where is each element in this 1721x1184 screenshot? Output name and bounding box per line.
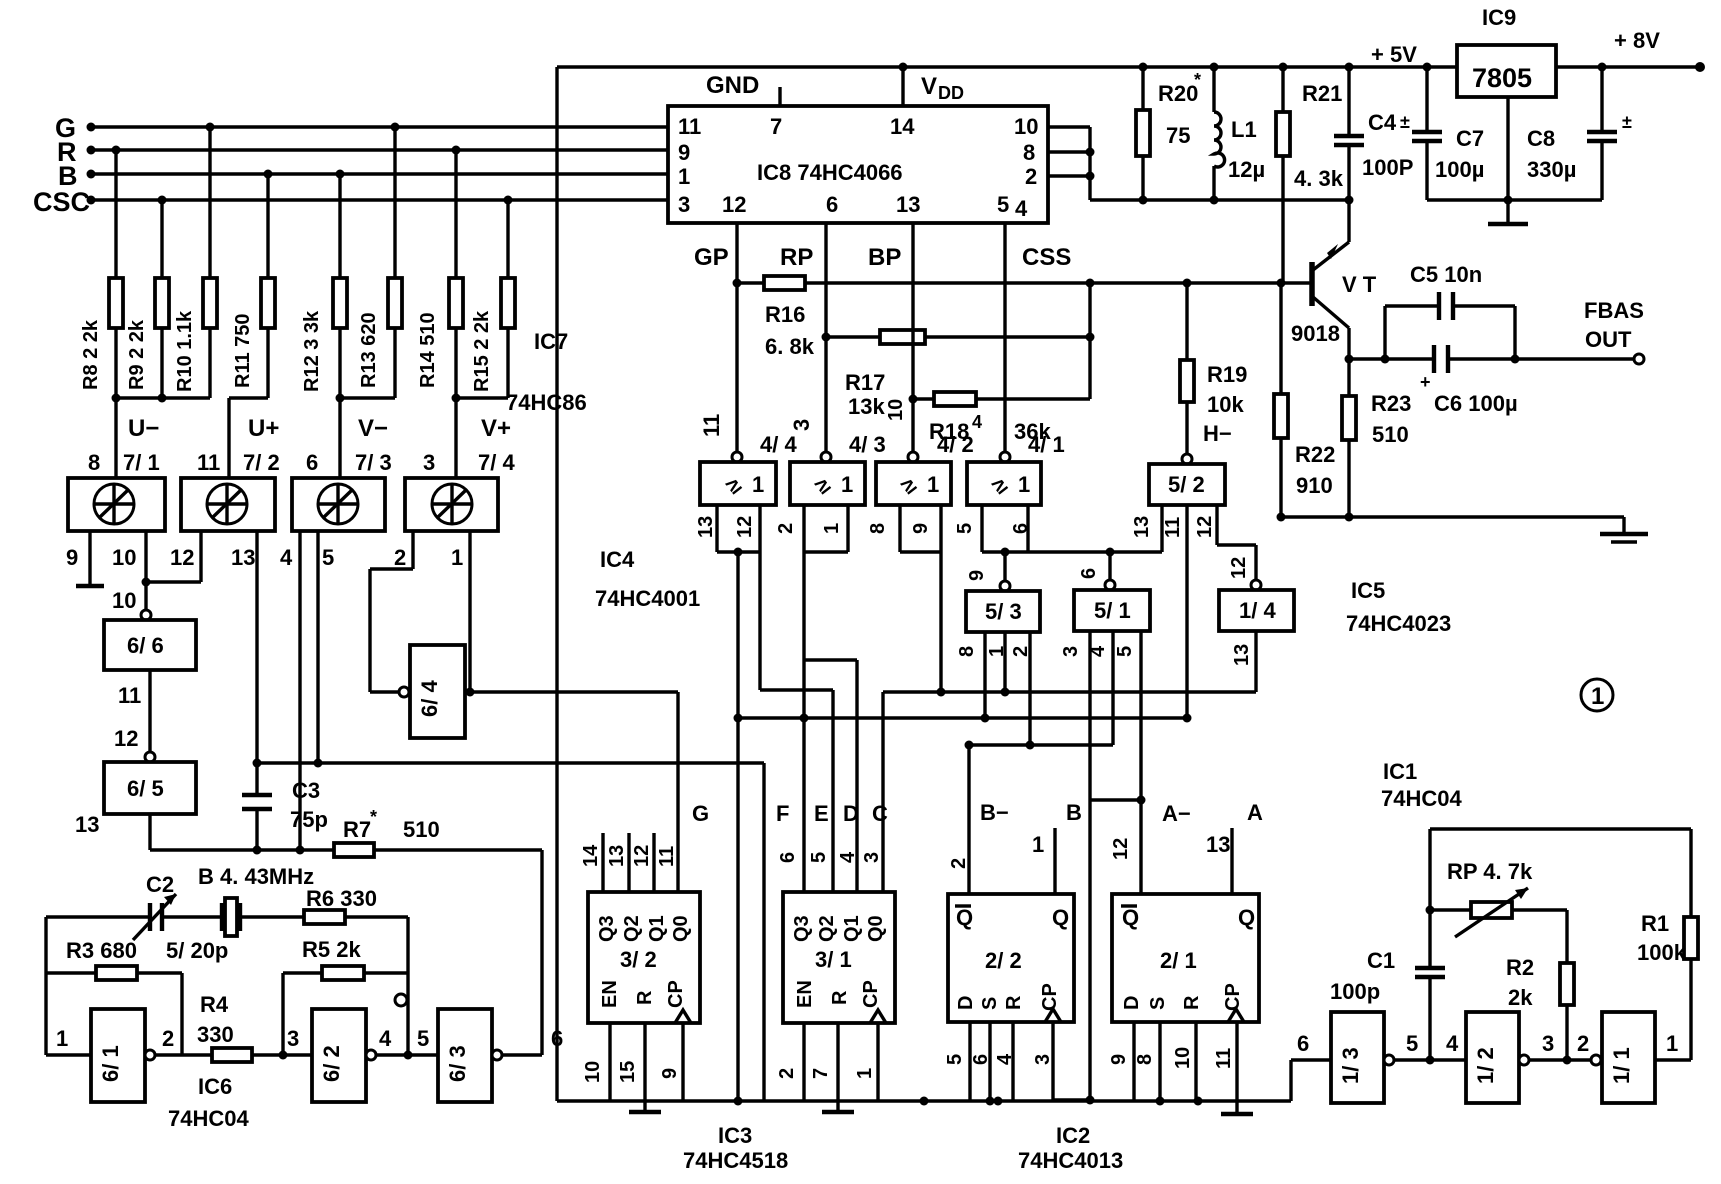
svg-text:3: 3 — [861, 852, 883, 863]
svg-text:R: R — [1003, 995, 1025, 1010]
svg-text:R6 330: R6 330 — [306, 886, 377, 911]
svg-text:5: 5 — [808, 852, 830, 863]
circled 1 mark — [1581, 679, 1613, 711]
svg-text:3: 3 — [287, 1026, 299, 1051]
xor gate 4/4 — [699, 414, 797, 505]
svg-text:330µ: 330µ — [1527, 157, 1576, 182]
IC5 label — [1346, 578, 1451, 636]
svg-text:IC1: IC1 — [1383, 759, 1417, 784]
node V- sum — [336, 394, 396, 479]
wire 6/2 out — [376, 994, 438, 1060]
node U+ sum — [229, 398, 279, 478]
svg-text:13: 13 — [1231, 644, 1253, 666]
nor gate 5/3 — [966, 581, 1040, 632]
svg-text:2/ 2: 2/ 2 — [985, 948, 1022, 973]
svg-text:1: 1 — [678, 164, 690, 189]
svg-text:Q2: Q2 — [816, 915, 838, 942]
wire CSS vertical — [1003, 223, 1006, 452]
inverter 6/4 (vertical) — [399, 645, 465, 738]
svg-text:R: R — [1181, 995, 1203, 1010]
svg-text:+ 5V: + 5V — [1371, 42, 1417, 67]
resistor R22 910 — [1274, 279, 1335, 518]
svg-text:1: 1 — [1591, 683, 1604, 710]
svg-text:R8 2 2k: R8 2 2k — [80, 319, 102, 390]
svg-text:1/ 3: 1/ 3 — [1338, 1047, 1363, 1084]
wire emitter rail y517 — [1277, 513, 1625, 522]
svg-text:9: 9 — [966, 570, 988, 581]
svg-text:R15 2 2k: R15 2 2k — [471, 310, 493, 392]
svg-text:4/ 3: 4/ 3 — [849, 432, 886, 457]
resistor R14 510 — [417, 150, 463, 398]
svg-text:4: 4 — [1015, 196, 1028, 221]
svg-text:1/ 4: 1/ 4 — [1239, 598, 1276, 623]
svg-text:74HC4023: 74HC4023 — [1346, 611, 1451, 636]
node V+ sum — [452, 394, 512, 479]
svg-text:1: 1 — [986, 646, 1008, 657]
resistor R11 750 — [232, 174, 275, 398]
inverter 6/5 — [104, 752, 196, 814]
svg-text:IC8 74HC4066: IC8 74HC4066 — [757, 160, 903, 185]
svg-text:C6 100µ: C6 100µ — [1434, 391, 1518, 416]
inverter 6/3 — [417, 1009, 563, 1102]
IC7 label — [506, 329, 587, 415]
svg-text:6/ 3: 6/ 3 — [445, 1045, 470, 1082]
nor gate 5/1 — [1074, 568, 1150, 631]
resistor R17 13k — [822, 330, 1095, 419]
svg-text:2: 2 — [1025, 164, 1037, 189]
wire 4/3 out jog to net D — [804, 660, 857, 892]
resistor R16 6.8k — [733, 276, 1310, 359]
capacitor C3 75p — [242, 778, 328, 850]
wire EN2 return via x764 — [762, 763, 765, 1101]
svg-text:EN: EN — [599, 980, 621, 1008]
IC8 74HC4066 — [668, 106, 1048, 223]
wire B — [91, 172, 668, 175]
svg-text:3: 3 — [423, 450, 435, 475]
pin 12 wire — [170, 531, 201, 582]
svg-text:3: 3 — [678, 192, 690, 217]
svg-text:13k: 13k — [848, 394, 885, 419]
svg-text:1/ 2: 1/ 2 — [1473, 1047, 1498, 1084]
svg-text:74HC86: 74HC86 — [506, 390, 587, 415]
inductor L1 12u — [1210, 63, 1266, 201]
wire 1/3 out — [1394, 1031, 1466, 1065]
resistor R3 680 — [46, 938, 228, 1055]
svg-text:6/ 2: 6/ 2 — [319, 1045, 344, 1082]
svg-text:75: 75 — [1166, 123, 1190, 148]
svg-text:R7: R7 — [343, 817, 371, 842]
pin 5 wire V- — [318, 531, 334, 763]
flip-flop IC2 2/1 — [1112, 894, 1259, 1022]
FBAS OUT terminal — [1515, 298, 1644, 364]
adder 7/2 — [181, 450, 280, 531]
svg-text:C8: C8 — [1527, 126, 1555, 151]
svg-text:R17: R17 — [845, 370, 885, 395]
svg-text:8: 8 — [956, 646, 978, 657]
svg-text:R10 1.1k: R10 1.1k — [174, 310, 196, 392]
resistor R20 75 — [1136, 63, 1201, 201]
crystal B 4.43MHz — [198, 864, 314, 936]
svg-text:10: 10 — [1172, 1047, 1194, 1069]
svg-text:11: 11 — [1162, 517, 1184, 538]
node B input — [58, 161, 96, 191]
svg-text:EN: EN — [794, 980, 816, 1008]
inverter 6/1 — [46, 1009, 174, 1102]
svg-text:R19: R19 — [1207, 362, 1247, 387]
svg-text:E: E — [814, 801, 829, 826]
svg-text:GP: GP — [694, 244, 729, 271]
svg-text:6. 8k: 6. 8k — [765, 334, 815, 359]
svg-text:6/ 1: 6/ 1 — [98, 1045, 123, 1082]
wire 1/1 out — [1655, 1031, 1691, 1060]
svg-text:R20: R20 — [1158, 81, 1198, 106]
svg-text:10: 10 — [1014, 114, 1038, 139]
svg-text:74HC4013: 74HC4013 — [1018, 1148, 1123, 1173]
svg-text:8: 8 — [1023, 140, 1035, 165]
svg-text:DD: DD — [938, 83, 964, 103]
3/2 spare Q stubs pins 14,13,12 — [580, 833, 678, 892]
2/2 top pins 2,1 — [948, 828, 1055, 894]
svg-text:9: 9 — [678, 140, 690, 165]
resistor R13 620 — [358, 127, 402, 398]
svg-text:4/ 2: 4/ 2 — [937, 432, 974, 457]
IC8 right output pins joined — [1048, 127, 1095, 200]
svg-text:6: 6 — [306, 450, 318, 475]
svg-text:9: 9 — [659, 1068, 681, 1079]
svg-text:5: 5 — [997, 192, 1009, 217]
svg-text:R: R — [634, 990, 656, 1005]
svg-text:C5 10n: C5 10n — [1410, 262, 1482, 287]
resistor R10 1.1k — [174, 127, 217, 398]
svg-text:6/ 5: 6/ 5 — [127, 776, 164, 801]
svg-text:1: 1 — [56, 1026, 68, 1051]
svg-text:3/ 2: 3/ 2 — [620, 947, 657, 972]
svg-text:2/ 1: 2/ 1 — [1160, 948, 1197, 973]
svg-text:510: 510 — [403, 817, 440, 842]
2/1 top pins 12,13 — [1110, 828, 1232, 894]
capacitor C5 10n bypass — [1349, 262, 1515, 364]
svg-text:13: 13 — [1206, 832, 1230, 857]
svg-text:7/ 3: 7/ 3 — [355, 450, 392, 475]
wire 6/4 output to counter Q0 feedback — [465, 688, 678, 893]
svg-text:3/ 1: 3/ 1 — [815, 947, 852, 972]
svg-text:8: 8 — [1134, 1054, 1156, 1065]
svg-text:12: 12 — [170, 545, 194, 570]
svg-text:CP: CP — [665, 980, 687, 1008]
GND pin 7 stub — [706, 72, 780, 106]
wire 1/2 out — [1529, 1031, 1591, 1065]
svg-text:10: 10 — [885, 399, 907, 421]
svg-text:C4: C4 — [1368, 110, 1397, 135]
svg-text:R2: R2 — [1506, 955, 1534, 980]
svg-text:1: 1 — [854, 1068, 876, 1079]
svg-text:6: 6 — [1010, 523, 1032, 534]
svg-text:1: 1 — [1018, 472, 1030, 497]
5/1 pins 3,4,5 — [1060, 631, 1141, 894]
svg-text:R1: R1 — [1641, 911, 1669, 936]
svg-text:12: 12 — [1110, 838, 1132, 860]
svg-text:6: 6 — [826, 192, 838, 217]
svg-text:13: 13 — [1131, 516, 1153, 538]
svg-text:10k: 10k — [1207, 392, 1244, 417]
svg-text:12: 12 — [631, 845, 653, 867]
svg-text:10: 10 — [112, 545, 136, 570]
svg-text:C1: C1 — [1367, 948, 1395, 973]
svg-text:L1: L1 — [1231, 117, 1257, 142]
IC1 label — [1381, 759, 1462, 811]
svg-text:9018: 9018 — [1291, 321, 1340, 346]
svg-text:74HC04: 74HC04 — [168, 1106, 249, 1131]
svg-text:3: 3 — [789, 419, 814, 431]
junction dots on input lines — [112, 123, 513, 205]
svg-text:910: 910 — [1296, 473, 1333, 498]
svg-text:5: 5 — [1114, 646, 1136, 657]
svg-text:7/ 1: 7/ 1 — [123, 450, 160, 475]
svg-text:74HC04: 74HC04 — [1381, 786, 1462, 811]
resistor R12 3.3k — [301, 174, 347, 398]
1/4 pin 13 — [1231, 631, 1256, 692]
svg-text:*: * — [1194, 70, 1201, 90]
svg-text:5/ 20p: 5/ 20p — [166, 938, 228, 963]
svg-text:±: ± — [1622, 112, 1632, 132]
GP RP BP CSS labels — [694, 244, 1071, 271]
svg-text:6: 6 — [970, 1054, 992, 1065]
svg-text:100k: 100k — [1637, 940, 1687, 965]
svg-text:IC9: IC9 — [1482, 5, 1516, 30]
wire rail y692 (C net) — [883, 688, 1256, 893]
svg-text:A−: A− — [1162, 801, 1191, 826]
3/2 bottom pins 10,15,9 — [582, 1023, 683, 1112]
wire BP vertical — [911, 223, 914, 452]
svg-text:IC3: IC3 — [718, 1123, 752, 1148]
svg-text:13: 13 — [231, 545, 255, 570]
svg-text:5: 5 — [954, 523, 976, 534]
resistor R7 510 with rail — [150, 807, 542, 857]
svg-text:R5 2k: R5 2k — [302, 937, 361, 962]
resistor R21 4.3k — [1276, 63, 1344, 284]
capacitor C1 100p — [1330, 948, 1445, 1060]
svg-text:R16: R16 — [765, 302, 805, 327]
pin 1 wire V+ — [451, 531, 470, 692]
svg-text:Q1: Q1 — [841, 915, 863, 942]
svg-text:R9 2 2k: R9 2 2k — [126, 319, 148, 390]
svg-text:11: 11 — [197, 450, 220, 475]
svg-text:1: 1 — [821, 523, 843, 534]
svg-text:4/ 4: 4/ 4 — [760, 432, 797, 457]
svg-text:12: 12 — [722, 192, 746, 217]
svg-text:*: * — [370, 807, 377, 827]
node CSC input — [33, 187, 96, 217]
wire 6/3 out up to rail — [502, 850, 542, 1055]
svg-text:10: 10 — [582, 1061, 604, 1083]
svg-text:2: 2 — [162, 1026, 174, 1051]
svg-text:5: 5 — [1406, 1031, 1418, 1056]
svg-text:U−: U− — [128, 415, 159, 442]
svg-text:4: 4 — [379, 1026, 392, 1051]
inverter 6/6 — [104, 610, 196, 670]
counter IC3 3/1 — [783, 892, 895, 1023]
svg-text:6: 6 — [777, 852, 799, 863]
svg-text:Q3: Q3 — [791, 915, 813, 942]
resistor R15 2.2k — [471, 200, 515, 398]
wire RP vertical — [824, 223, 827, 452]
svg-text:11: 11 — [678, 114, 701, 139]
svg-text:C: C — [872, 801, 888, 826]
svg-text:9: 9 — [1108, 1054, 1130, 1065]
svg-text:R: R — [829, 990, 851, 1005]
svg-text:B 4. 43MHz: B 4. 43MHz — [198, 864, 314, 889]
svg-text:C2: C2 — [146, 872, 174, 897]
svg-text:2: 2 — [775, 523, 797, 534]
svg-text:11: 11 — [118, 683, 141, 708]
resistor R9 2.2k — [126, 200, 169, 398]
svg-text:13: 13 — [606, 845, 628, 867]
IC4 label — [595, 547, 700, 611]
wire bottom rail y1101 — [557, 1031, 1331, 1106]
svg-text:12: 12 — [1228, 557, 1250, 579]
svg-text:R12 3 3k: R12 3 3k — [301, 310, 323, 392]
IC2 label — [1018, 1123, 1123, 1173]
svg-text:U+: U+ — [248, 415, 279, 442]
svg-text:IC6: IC6 — [198, 1074, 232, 1099]
svg-text:C7: C7 — [1456, 126, 1484, 151]
pin 2 wire V+ jog to 6/4 input — [370, 531, 413, 692]
pin 13 wire U+ (long, through C3) — [231, 531, 257, 795]
svg-text:B−: B− — [980, 800, 1009, 825]
svg-text:5: 5 — [322, 545, 334, 570]
svg-text:4: 4 — [972, 412, 982, 432]
svg-text:1/ 1: 1/ 1 — [1609, 1047, 1634, 1084]
svg-text:6/ 6: 6/ 6 — [127, 633, 164, 658]
svg-text:4: 4 — [994, 1053, 1016, 1065]
xor gate 4/3 — [789, 419, 886, 505]
svg-text:100p: 100p — [1330, 979, 1380, 1004]
inverter 1/3 — [1331, 1012, 1394, 1103]
svg-text:7: 7 — [770, 114, 782, 139]
svg-text:4: 4 — [1446, 1031, 1459, 1056]
svg-text:BP: BP — [868, 244, 901, 271]
inverter 6/2 — [287, 1009, 392, 1102]
svg-text:Q1: Q1 — [646, 915, 668, 942]
capacitor C6 100u inline — [1385, 345, 1520, 416]
transistor VT 9018 — [1291, 200, 1377, 359]
ground right — [1600, 517, 1648, 542]
svg-text:5/ 3: 5/ 3 — [985, 599, 1022, 624]
svg-text:12µ: 12µ — [1228, 157, 1265, 182]
svg-text:V+: V+ — [481, 415, 511, 442]
svg-text:Q: Q — [1052, 905, 1069, 930]
voltage regulator IC9 7805 — [1457, 5, 1556, 97]
svg-text:RP 4. 7k: RP 4. 7k — [1447, 859, 1533, 884]
IC6 label — [168, 1074, 249, 1131]
svg-text:A: A — [1247, 800, 1263, 825]
svg-text:V T: V T — [1342, 272, 1377, 297]
node G input — [55, 113, 96, 143]
svg-text:5/ 1: 5/ 1 — [1094, 598, 1131, 623]
GND long vertical — [555, 67, 558, 1101]
node R input — [57, 137, 96, 167]
svg-text:2k: 2k — [1508, 985, 1533, 1010]
svg-text:±: ± — [1400, 112, 1410, 132]
svg-text:100P: 100P — [1362, 155, 1413, 180]
svg-text:10: 10 — [112, 588, 136, 613]
5/3 pins 8,1,2 — [956, 632, 1032, 745]
svg-text:R22: R22 — [1295, 442, 1335, 467]
svg-text:74HC4001: 74HC4001 — [595, 586, 700, 611]
wire ground rail under 7805 — [1427, 97, 1602, 205]
svg-text:CP: CP — [860, 980, 882, 1008]
capacitor C7 100u — [1400, 63, 1484, 201]
node U- sum — [112, 394, 211, 479]
resistor R18 36k — [909, 279, 1095, 445]
svg-text:100µ: 100µ — [1435, 157, 1484, 182]
svg-text:14: 14 — [580, 844, 602, 867]
2/2 bottom pins 5,6,4,3 — [944, 1022, 1090, 1106]
svg-text:5: 5 — [944, 1054, 966, 1065]
xor gate 4/2 — [876, 399, 974, 505]
svg-text:R11 750: R11 750 — [232, 313, 254, 388]
counter IC3 3/2 — [588, 892, 700, 1023]
svg-text:2: 2 — [1577, 1031, 1589, 1056]
5/2 pins 13,11,12 — [1131, 505, 1256, 718]
svg-text:1: 1 — [1032, 832, 1044, 857]
svg-text:D: D — [843, 801, 859, 826]
resistor R19 10k — [1180, 279, 1247, 455]
svg-text:RP: RP — [780, 244, 813, 271]
svg-text:510: 510 — [1372, 422, 1409, 447]
svg-text:R21: R21 — [1302, 81, 1342, 106]
svg-text:2: 2 — [1010, 646, 1032, 657]
svg-text:13: 13 — [75, 812, 99, 837]
resistor R23 510 — [1342, 355, 1411, 518]
svg-text:1: 1 — [1666, 1031, 1678, 1056]
resistor R8 2.2k — [80, 150, 123, 398]
resistor R2 2k — [1506, 955, 1574, 1060]
svg-text:F: F — [776, 801, 789, 826]
svg-text:6: 6 — [1297, 1031, 1309, 1056]
op-amp-style adder U1 (IC7 gate 7/1) — [68, 450, 165, 531]
svg-text:12: 12 — [734, 516, 756, 538]
svg-text:C3: C3 — [292, 778, 320, 803]
ground below 7805 — [1488, 200, 1528, 224]
svg-text:R13 620: R13 620 — [358, 312, 380, 388]
svg-text:V−: V− — [358, 415, 388, 442]
svg-text:R23: R23 — [1371, 391, 1411, 416]
capacitor C8 330u — [1527, 67, 1632, 200]
pin 4 wire V- — [280, 531, 300, 850]
svg-text:7/ 2: 7/ 2 — [243, 450, 280, 475]
svg-text:15: 15 — [617, 1061, 639, 1083]
wire CSC — [91, 198, 668, 201]
svg-text:9: 9 — [66, 545, 78, 570]
svg-text:2: 2 — [948, 858, 970, 869]
flip-flop IC2 2/2 — [948, 894, 1074, 1022]
svg-text:R3 680: R3 680 — [66, 938, 137, 963]
svg-text:4. 3k: 4. 3k — [1294, 166, 1344, 191]
wire IC1 top feedback — [1430, 829, 1691, 968]
svg-text:OUT: OUT — [1585, 327, 1632, 352]
svg-text:Q: Q — [956, 905, 973, 930]
adder 7/3 — [292, 450, 392, 531]
node letters — [692, 800, 1263, 826]
wire rail y763 — [253, 759, 765, 768]
svg-text:CP: CP — [1222, 983, 1244, 1011]
svg-text:GND: GND — [706, 72, 759, 99]
svg-text:4/ 1: 4/ 1 — [1028, 432, 1065, 457]
svg-text:14: 14 — [890, 114, 915, 139]
svg-text:75p: 75p — [290, 807, 328, 832]
svg-text:V: V — [921, 73, 937, 100]
